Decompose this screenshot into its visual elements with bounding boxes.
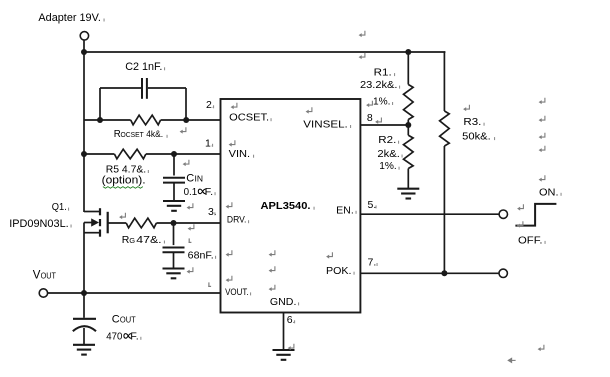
svg-text:C: C bbox=[186, 172, 194, 184]
svg-text:470: 470 bbox=[106, 331, 122, 342]
wire OCSET row left bbox=[84, 119, 131, 121]
node DRV junction bbox=[171, 220, 177, 226]
wire R3 bottom lead bbox=[443, 146, 445, 273]
transistor Q1 gate bar bbox=[107, 212, 109, 234]
resistor RG bbox=[126, 218, 156, 228]
svg-text:1%.: 1%. bbox=[379, 160, 397, 172]
wire C2 right leg bbox=[148, 87, 186, 89]
resistor R2 bbox=[404, 135, 414, 168]
wire 68nF bottom lead bbox=[173, 253, 175, 269]
resistor R1 bbox=[404, 85, 414, 120]
terminal POK bbox=[499, 269, 507, 277]
capacitor 68nF bbox=[163, 248, 185, 253]
op-amp U1 APL3540 body bbox=[221, 99, 361, 313]
wire OCSET row right bbox=[161, 119, 221, 121]
wire GND pin lead bbox=[283, 313, 285, 350]
svg-text:5.: 5. bbox=[368, 199, 377, 211]
svg-text:2.: 2. bbox=[206, 99, 215, 111]
svg-text:(option).: (option). bbox=[102, 174, 146, 186]
svg-text:G: G bbox=[129, 236, 135, 245]
wire VINSEL row bbox=[360, 124, 408, 126]
svg-text:23.2k&.: 23.2k&. bbox=[360, 79, 398, 91]
svg-text:OCSET: OCSET bbox=[121, 130, 145, 139]
ground pin6 bbox=[273, 350, 295, 360]
formatting L mark near VOUT pin bbox=[208, 282, 211, 287]
svg-text:R1.: R1. bbox=[374, 67, 392, 79]
node 19V rail junction bbox=[81, 49, 87, 55]
node VOUT junction bbox=[81, 290, 87, 296]
svg-text:C2 1nF.: C2 1nF. bbox=[125, 61, 162, 73]
resistor ROCSET bbox=[131, 115, 161, 125]
node VIN row left junction bbox=[81, 151, 87, 157]
ground CIN bbox=[163, 201, 185, 211]
capacitor COUT plus plate bbox=[73, 318, 96, 320]
svg-text:VOUT.: VOUT. bbox=[225, 287, 249, 298]
wire POK row bbox=[360, 272, 499, 274]
formatting L mark near 68nF bbox=[189, 238, 192, 243]
svg-text:V: V bbox=[33, 270, 41, 282]
wire top 19V rail bbox=[84, 51, 445, 53]
wire VOUT row bbox=[48, 292, 221, 294]
svg-text:4k&.: 4k&. bbox=[146, 129, 163, 140]
svg-text:2k&.: 2k&. bbox=[377, 148, 400, 160]
svg-text:47&.: 47&. bbox=[136, 234, 161, 246]
svg-text:Adapter 19V.: Adapter 19V. bbox=[38, 12, 101, 24]
wire C2 left leg bbox=[99, 88, 101, 120]
ground 68nF bbox=[163, 269, 185, 279]
wire left rail upper bbox=[83, 52, 85, 212]
wire R1 bottom lead bbox=[407, 120, 409, 126]
svg-text:Q1.: Q1. bbox=[52, 201, 67, 213]
transistor Q1 source stub bbox=[84, 232, 100, 234]
wire R2 top lead bbox=[407, 125, 409, 135]
wire VIN row left bbox=[84, 153, 114, 155]
wire gate lead bbox=[108, 222, 127, 224]
node CIN junction bbox=[171, 151, 177, 157]
terminal adapter input bbox=[80, 32, 88, 40]
wire adapter to rail bbox=[83, 40, 85, 52]
resistor R5 bbox=[114, 149, 145, 159]
spellcheck squiggle bbox=[103, 187, 143, 189]
svg-text:C: C bbox=[112, 314, 120, 326]
node POK R3 junction bbox=[441, 270, 447, 276]
svg-text:1%.: 1%. bbox=[373, 96, 391, 108]
node R1 top junction bbox=[405, 49, 411, 55]
terminal VOUT bbox=[39, 289, 47, 297]
svg-text:APL3540.: APL3540. bbox=[261, 200, 311, 212]
transistor Q1 drain stub bbox=[84, 211, 100, 213]
svg-text:EN.: EN. bbox=[336, 204, 354, 216]
wire R2 bottom lead bbox=[407, 169, 409, 189]
wire 68nF top lead bbox=[173, 223, 175, 245]
terminal EN bbox=[499, 210, 507, 218]
transistor Q1 body arrow bbox=[91, 218, 99, 226]
formatting tab arrow bbox=[508, 358, 515, 362]
wire R1 top lead bbox=[407, 52, 409, 85]
svg-text:IN: IN bbox=[195, 174, 204, 183]
svg-text:8: 8 bbox=[367, 112, 373, 124]
transistor Q1 body stub bbox=[84, 222, 92, 224]
svg-text:OFF.: OFF. bbox=[518, 234, 543, 246]
wire COUT bottom lead bbox=[83, 328, 85, 345]
waveform ON OFF step bbox=[515, 204, 556, 226]
wire DRV row right bbox=[156, 222, 220, 224]
wire left rail lower bbox=[83, 223, 85, 294]
capacitor CIN bbox=[163, 178, 185, 183]
svg-text:6.: 6. bbox=[287, 314, 296, 326]
svg-text:3.: 3. bbox=[208, 206, 217, 218]
node C2 right junction bbox=[183, 117, 189, 123]
svg-text:GND.: GND. bbox=[270, 296, 297, 308]
svg-text:OUT: OUT bbox=[41, 272, 56, 281]
wire CIN top lead bbox=[173, 154, 175, 176]
svg-text:7.: 7. bbox=[368, 257, 377, 269]
node VINSEL junction bbox=[405, 122, 411, 128]
svg-text:50k&.: 50k&. bbox=[462, 131, 491, 143]
svg-text:OCSET.: OCSET. bbox=[229, 112, 269, 124]
svg-text:VINSEL.: VINSEL. bbox=[303, 119, 348, 131]
svg-text:VIN.: VIN. bbox=[229, 148, 251, 160]
svg-text:R3.: R3. bbox=[463, 116, 481, 128]
transistor Q1 channel bars bbox=[99, 208, 101, 237]
svg-text:DRV.: DRV. bbox=[227, 215, 247, 226]
svg-text:POK.: POK. bbox=[326, 265, 352, 277]
svg-text:F.: F. bbox=[205, 187, 213, 198]
wire VIN row right bbox=[146, 153, 221, 155]
wire COUT top lead bbox=[83, 293, 85, 318]
node C2 left junction bbox=[97, 117, 103, 123]
svg-text:ON.: ON. bbox=[539, 186, 559, 198]
svg-text:68nF.: 68nF. bbox=[188, 250, 214, 261]
resistor R3 bbox=[440, 111, 450, 146]
svg-text:0.1: 0.1 bbox=[184, 187, 198, 198]
wire R3 top lead bbox=[443, 52, 445, 111]
wire CIN bottom lead bbox=[173, 183, 175, 201]
svg-text:OUT: OUT bbox=[120, 316, 136, 325]
ground COUT bbox=[73, 345, 95, 355]
capacitor COUT curved plate bbox=[73, 326, 96, 331]
capacitor C2 bbox=[142, 78, 147, 99]
svg-text:F.: F. bbox=[130, 331, 138, 342]
svg-text:R2.: R2. bbox=[378, 134, 396, 146]
formatting pilcrow marks bbox=[119, 31, 545, 351]
wire EN row bbox=[360, 213, 499, 215]
ground R2 bbox=[397, 189, 419, 199]
svg-text:1.: 1. bbox=[205, 137, 214, 149]
svg-text:IPD09N03L.: IPD09N03L. bbox=[9, 218, 68, 230]
